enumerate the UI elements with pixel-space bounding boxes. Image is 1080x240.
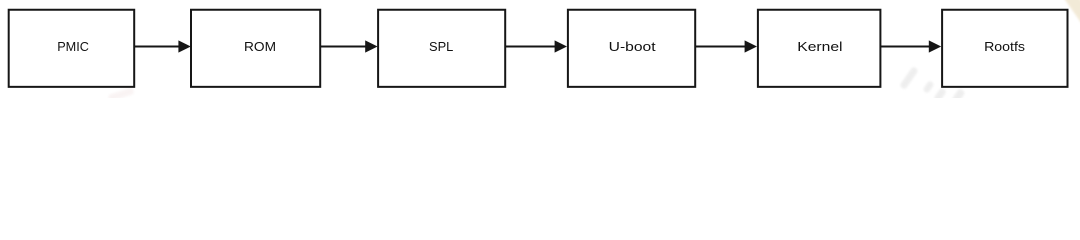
box Kernel: [758, 10, 881, 87]
wire arrow U-boot to Kernel: [696, 40, 757, 52]
svg-text:Kernel: Kernel: [797, 39, 842, 54]
wire arrow ROM to SPL: [321, 40, 378, 52]
box SPL: [378, 10, 505, 87]
wire arrow SPL to U-boot: [505, 40, 567, 52]
svg-text:U-boot: U-boot: [609, 39, 656, 54]
svg-text:ROM: ROM: [244, 39, 276, 54]
wire arrow Kernel to Rootfs: [881, 40, 941, 52]
watermark bottom-left faint mark: [108, 87, 135, 102]
box ROM: [191, 10, 320, 87]
box PMIC: [9, 10, 135, 87]
watermark bottom-right gray slashes: [899, 66, 965, 104]
svg-text:SPL: SPL: [429, 39, 453, 54]
box U-boot: [568, 10, 695, 87]
svg-text:Rootfs: Rootfs: [984, 39, 1025, 54]
box Rootfs: [942, 10, 1067, 87]
svg-text:PMIC: PMIC: [57, 39, 89, 54]
wire arrow PMIC to ROM: [135, 40, 191, 52]
watermark top-right cream band: [1064, 0, 1080, 34]
